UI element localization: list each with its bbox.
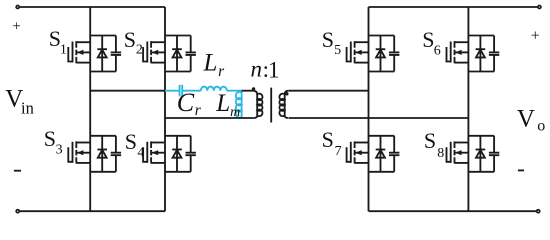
switch S3: snubber box top wire [90, 135, 116, 137]
switch S6: MOSFET source lead [455, 62, 469, 64]
resonant capacitor Cr (cyan) wire segment [165, 90, 201, 92]
svg-text:r: r [195, 102, 202, 119]
switch S8: parallel capacitor [489, 136, 499, 172]
svg-text:S: S [124, 27, 136, 52]
switch S3: body diode [97, 136, 107, 172]
switch S7: MOSFET drain lead [355, 142, 369, 144]
switch S7: snubber box top wire [369, 135, 395, 137]
svg-text:S: S [125, 129, 137, 154]
svg-text:L: L [203, 50, 218, 77]
switch S7: snubber box bottom wire [369, 171, 395, 173]
transformer primary winding [253, 91, 263, 118]
svg-text:o: o [537, 117, 545, 134]
switch S4: MOSFET gate plate [146, 142, 148, 163]
switch S3: MOSFET drain lead [76, 142, 90, 144]
switch S1: snubber box top wire [90, 35, 116, 37]
wire: secondary top to right leg1 midpoint [289, 90, 369, 92]
svg-text:1: 1 [268, 58, 280, 83]
switch S1: snubber box bottom wire [90, 71, 116, 73]
switch S8: snubber box top wire [468, 135, 494, 137]
right bridge leg 2 rail (S6/S8) [467, 7, 469, 211]
switch S3: MOSFET gate lead [68, 147, 72, 162]
svg-text:4: 4 [137, 146, 144, 161]
svg-text:C: C [177, 88, 195, 117]
svg-text:6: 6 [434, 43, 441, 58]
svg-text:V: V [517, 106, 535, 133]
switch S5: MOSFET gate lead [347, 47, 351, 62]
switch S7: MOSFET channel segments [354, 141, 356, 163]
svg-text:m: m [230, 105, 240, 120]
switch S4: snubber box bottom wire [165, 171, 191, 173]
svg-text:2: 2 [136, 43, 143, 58]
svg-text:+: + [12, 18, 20, 34]
output terminal + (top right) [538, 6, 541, 9]
switch S5: MOSFET drain lead [355, 41, 369, 43]
switch S7: label S7 [322, 127, 342, 159]
svg-text:S: S [322, 27, 334, 52]
switch S1: body diode [97, 36, 107, 72]
switch S4: MOSFET gate lead [143, 147, 147, 162]
label n:1 (turns ratio) [251, 57, 280, 83]
switch S4: body diode [172, 136, 182, 172]
switch S2: parallel capacitor [186, 36, 196, 72]
switch S3: MOSFET body lead with arrow [76, 152, 90, 154]
switch S8: MOSFET gate lead [447, 147, 451, 162]
svg-text:in: in [21, 99, 34, 118]
wire: primary bottom return to leg2 midpoint node B [165, 117, 254, 119]
label Vo [517, 106, 545, 135]
bottom rail left (Vin- bus) [18, 210, 165, 212]
svg-text:+: + [531, 27, 540, 44]
switch S2: MOSFET body lead with arrow [151, 51, 165, 53]
switch S3: MOSFET source lead [76, 162, 90, 164]
switch S5: MOSFET channel segments [354, 41, 356, 63]
switch S2: MOSFET channel segments [150, 41, 152, 63]
switch S8: MOSFET gate plate [450, 142, 452, 163]
top rail right (Vo+ bus) [369, 6, 540, 8]
switch S8: snubber box bottom wire [468, 171, 494, 173]
resonant inductor Lr coil (cyan) [201, 87, 227, 91]
svg-text:r: r [218, 63, 225, 80]
switch S7: MOSFET source lead [355, 162, 369, 164]
switch S2: MOSFET gate lead [143, 47, 147, 62]
switch S1: MOSFET drain lead [76, 41, 90, 43]
switch S6: MOSFET body lead with arrow [455, 51, 469, 53]
switch S5: label S5 [322, 27, 341, 58]
label + (input) [12, 18, 20, 34]
output terminal - (bottom right) [537, 210, 540, 213]
switch S3: MOSFET gate plate [72, 142, 74, 163]
switch S8: MOSFET source lead [455, 162, 469, 164]
label + (output) [531, 27, 540, 44]
label Lm [215, 90, 240, 120]
switch S2: label S2 [124, 27, 143, 57]
switch S2: body diode [172, 36, 182, 72]
wire: tank output to transformer primary [242, 90, 253, 92]
switch S5: parallel capacitor [389, 36, 399, 72]
secondary polarity dot [285, 92, 289, 96]
switch S8: MOSFET body lead with arrow [455, 152, 469, 154]
input terminal - (bottom left) [16, 210, 19, 213]
switch S6: MOSFET gate plate [450, 42, 452, 63]
svg-text:S: S [424, 128, 436, 153]
svg-text:1: 1 [60, 43, 67, 58]
left bridge leg 2 rail (S2/S4) [164, 7, 166, 211]
switch S5: MOSFET body lead with arrow [355, 51, 369, 53]
switch S6: MOSFET gate lead [447, 47, 451, 62]
switch S2: MOSFET source lead [151, 62, 165, 64]
switch S1: parallel capacitor [111, 36, 121, 72]
wire: secondary bottom to right leg2 midpoint [289, 117, 469, 119]
switch S7: MOSFET gate lead [347, 147, 351, 162]
svg-text:8: 8 [437, 146, 444, 161]
switch S1: MOSFET gate lead [68, 47, 72, 62]
label Lr [203, 50, 226, 80]
wire: Lr to Lm node (cyan) [227, 90, 242, 92]
switch S1: MOSFET gate plate [72, 42, 74, 63]
switch S2: snubber box bottom wire [165, 71, 191, 73]
switch S7: MOSFET body lead with arrow [355, 152, 369, 154]
svg-text:3: 3 [56, 142, 63, 157]
wire: leg1 midpoint node A to resonant tank [90, 90, 165, 92]
switch S2: MOSFET drain lead [151, 41, 165, 43]
label Cr [177, 88, 202, 119]
svg-text:7: 7 [335, 144, 342, 159]
switch S4: MOSFET source lead [151, 162, 165, 164]
switch S3: MOSFET channel segments [75, 141, 77, 163]
transformer core [270, 88, 272, 123]
switch S5: MOSFET source lead [355, 62, 369, 64]
switch S2: snubber box top wire [165, 35, 191, 37]
switch S5: body diode [376, 36, 386, 72]
right bridge leg 1 rail (S5/S7) [368, 7, 370, 211]
switch S3: parallel capacitor [111, 136, 121, 172]
switch S4: snubber box top wire [165, 135, 191, 137]
left bridge leg 1 rail (S1/S3) [89, 7, 91, 211]
bottom rail right (Vo- bus) [369, 210, 539, 212]
transformer secondary winding [279, 91, 288, 118]
switch S1: label S1 [49, 26, 67, 58]
switch S6: label S6 [422, 27, 440, 58]
switch S7: parallel capacitor [389, 136, 399, 172]
switch S1: MOSFET channel segments [75, 41, 77, 63]
label - (input) [14, 170, 21, 172]
label Vin [5, 86, 34, 118]
switch S6: snubber box bottom wire [468, 71, 494, 73]
switch S7: MOSFET gate plate [350, 142, 352, 163]
svg-text:S: S [322, 127, 334, 152]
switch S4: MOSFET drain lead [151, 142, 165, 144]
switch S8: MOSFET channel segments [454, 141, 456, 163]
switch S8: body diode [476, 136, 486, 172]
switch S3: label S3 [44, 126, 63, 157]
resonant capacitor Cr plates [180, 85, 183, 97]
switch S1: MOSFET body lead with arrow [76, 51, 90, 53]
top rail left (Vin+ bus) [18, 6, 165, 8]
svg-text:L: L [215, 90, 230, 117]
switch S4: parallel capacitor [186, 136, 196, 172]
switch S2: MOSFET gate plate [146, 42, 148, 63]
magnetizing inductor Lm coil (cyan, vertical spine with lobes) [241, 91, 243, 118]
switch S3: snubber box bottom wire [90, 171, 116, 173]
switch S1: MOSFET source lead [76, 62, 90, 64]
switch S8: label S8 [424, 128, 444, 161]
switch S6: snubber box top wire [468, 35, 494, 37]
switch S5: snubber box bottom wire [369, 71, 395, 73]
switch S8: MOSFET drain lead [455, 142, 469, 144]
switch S4: label S4 [125, 129, 145, 160]
svg-text:S: S [44, 126, 56, 151]
switch S6: body diode [476, 36, 486, 72]
svg-text:5: 5 [334, 43, 341, 58]
switch S6: parallel capacitor [489, 36, 499, 72]
input terminal + (top left) [16, 6, 19, 9]
switch S6: MOSFET drain lead [455, 41, 469, 43]
svg-text:n: n [251, 57, 263, 82]
switch S6: MOSFET channel segments [454, 41, 456, 63]
switch S5: snubber box top wire [369, 35, 395, 37]
label - (output) [518, 169, 524, 171]
switch S5: MOSFET gate plate [350, 42, 352, 63]
switch S4: MOSFET channel segments [150, 141, 152, 163]
switch S7: body diode [376, 136, 386, 172]
primary polarity dot [252, 87, 256, 91]
switch S4: MOSFET body lead with arrow [151, 152, 165, 154]
